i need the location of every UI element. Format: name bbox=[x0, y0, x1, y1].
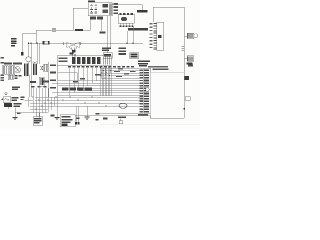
pair blobs bbox=[75, 122, 79, 124]
VSV1 hatch bbox=[188, 34, 192, 39]
filter box bottom bbox=[60, 115, 75, 127]
ECU connector box bbox=[144, 68, 151, 113]
left edge labels bbox=[0, 57, 4, 81]
bus junction bbox=[183, 108, 185, 110]
wire pair down bbox=[76, 106, 78, 122]
label 4A bbox=[100, 31, 106, 33]
label row to right bbox=[153, 69, 169, 71]
distributor rotor bbox=[67, 42, 80, 48]
wire filter out bbox=[25, 97, 34, 107]
tiny marks mid bbox=[15, 75, 22, 79]
pair 2 circles bbox=[33, 62, 37, 64]
joint box text bbox=[34, 118, 42, 124]
sub stripbox bbox=[8, 75, 13, 80]
bottom mid wires bbox=[57, 106, 184, 118]
lower feed wires bbox=[15, 97, 143, 113]
ecu feed wires mid bbox=[52, 81, 143, 96]
distributor pins bbox=[73, 54, 76, 57]
bundle junction dots bbox=[100, 68, 112, 79]
resistor label bbox=[104, 54, 111, 57]
cluster caption bbox=[12, 86, 20, 90]
ECU pin rows bbox=[144, 69, 149, 112]
relay pin labels bbox=[114, 3, 119, 14]
left label column bbox=[50, 65, 56, 89]
filter box rows bbox=[62, 116, 73, 123]
wire lamp drop bbox=[29, 43, 58, 106]
box cold start bbox=[130, 53, 139, 59]
connector left text bbox=[59, 58, 68, 63]
igniter box bbox=[118, 14, 134, 23]
ignition label text bbox=[14, 103, 22, 107]
ECU bottom caption bbox=[138, 114, 148, 116]
bus tick left bbox=[62, 42, 65, 45]
label TO DIST bbox=[137, 10, 148, 12]
ECU outline loop bbox=[151, 73, 185, 119]
wire bbox=[22, 8, 91, 52]
ground label bbox=[17, 113, 21, 115]
left cluster top bar bbox=[4, 63, 22, 65]
solenoid VSV1 bbox=[184, 33, 198, 39]
pin number row bbox=[68, 66, 134, 68]
labels B-Y column bbox=[119, 48, 127, 55]
ground left bbox=[8, 107, 15, 118]
label row top far bbox=[148, 66, 168, 68]
resistor on bus bbox=[185, 97, 190, 101]
sub stripbox stripes bbox=[9, 75, 12, 79]
fusible link blob bbox=[21, 52, 24, 55]
bus ticks bbox=[182, 47, 185, 51]
relay coil block bbox=[103, 4, 109, 13]
distributor cap blob bbox=[72, 50, 76, 53]
sensor stripbox 2 bbox=[9, 66, 15, 75]
check connector ladder bbox=[157, 22, 164, 50]
center connector box bbox=[57, 56, 111, 66]
fuse EFI bbox=[43, 41, 49, 44]
condenser bars bbox=[40, 78, 43, 85]
E1 label bbox=[51, 115, 55, 117]
filter labels bbox=[12, 97, 25, 101]
sensor stripbox 1 bbox=[2, 66, 8, 75]
igniter legs bbox=[121, 23, 133, 26]
capacitor pair 1 bbox=[24, 64, 28, 77]
VSV2 label bbox=[187, 63, 194, 67]
relay contacts bbox=[90, 4, 97, 13]
igniter marks bbox=[41, 66, 44, 70]
igniter terminals bbox=[119, 13, 133, 15]
connector bars bbox=[72, 57, 100, 64]
ECU circled pin bbox=[146, 88, 150, 92]
distributor fan bbox=[69, 47, 77, 50]
bus tick right bbox=[79, 42, 82, 45]
fusible link F/L bbox=[52, 29, 56, 31]
noise filter box bbox=[4, 96, 11, 103]
connector right stripes bbox=[103, 57, 109, 65]
solenoid VSV2 bbox=[184, 56, 194, 62]
ecu feed wires top bbox=[100, 68, 143, 78]
ladder pin labels bbox=[150, 23, 153, 48]
capacitor pair 2 bbox=[33, 64, 37, 75]
wire relay drop bbox=[91, 16, 111, 53]
junction dots bus bbox=[28, 43, 134, 44]
ground mid hatch bbox=[85, 117, 90, 119]
ECU left labels bbox=[140, 69, 143, 112]
scan bottom line bbox=[100, 124, 200, 126]
stripbox2 stripes bbox=[10, 66, 13, 74]
oxygen sensor oval bbox=[119, 103, 127, 108]
condenser box bbox=[39, 77, 44, 86]
grid labels bbox=[30, 81, 49, 88]
joint box bottom left bbox=[33, 117, 43, 126]
relay caption bar bbox=[90, 17, 103, 20]
small box right bbox=[44, 64, 48, 72]
E2 label bbox=[103, 118, 108, 120]
igniter internals bbox=[121, 17, 127, 21]
E2 marks bbox=[96, 113, 100, 121]
joint box top ticks bbox=[37, 113, 40, 117]
fuse ends bbox=[43, 41, 50, 44]
junction dots grid bbox=[32, 96, 106, 109]
W label bbox=[77, 118, 80, 120]
noise filter icon bbox=[5, 98, 9, 100]
wire to right bus bbox=[153, 7, 184, 25]
cold start label bbox=[131, 54, 138, 58]
arrow left bbox=[1, 98, 3, 100]
harness bundle verticals bbox=[101, 67, 112, 97]
VSV2 hatch bbox=[188, 56, 192, 61]
wire staircase bbox=[58, 73, 77, 81]
relay connector stripe bbox=[109, 4, 112, 16]
wire igniter to bus bbox=[127, 27, 133, 43]
small circle above bbox=[5, 93, 7, 95]
label FB bbox=[188, 64, 193, 66]
ground bus bar bbox=[62, 88, 92, 91]
label 23 bbox=[70, 52, 74, 54]
bottom comp bbox=[119, 119, 123, 124]
igniter caption bbox=[128, 28, 148, 30]
ground E1 bbox=[55, 118, 60, 120]
mid small labels bbox=[73, 68, 136, 82]
main relay label bbox=[88, 0, 95, 2]
resistor box bbox=[103, 53, 112, 59]
small box stripes bbox=[45, 65, 47, 72]
main bus wire bbox=[28, 34, 143, 44]
bottom comp label bbox=[118, 117, 126, 119]
ignition label box bbox=[4, 103, 12, 107]
igniter feet bbox=[120, 26, 134, 28]
label to circuit opening relay bbox=[102, 48, 111, 52]
motor circle bbox=[15, 67, 21, 73]
wire to igniter bbox=[112, 5, 142, 11]
label hot at all times bbox=[11, 38, 17, 46]
ECU top caption bbox=[138, 60, 150, 66]
ladder label B bbox=[158, 35, 161, 38]
stripbox1 stripes bbox=[3, 66, 6, 74]
lamp bbox=[26, 57, 31, 64]
grid verticals bbox=[33, 88, 54, 118]
filter box dark bbox=[62, 124, 68, 127]
ground mid bbox=[86, 106, 88, 117]
pin drop wires bbox=[70, 68, 111, 95]
ground hatch bbox=[13, 118, 18, 120]
label AM2 bbox=[75, 29, 83, 31]
ladder pins bbox=[154, 24, 157, 50]
diode on bus bbox=[185, 76, 190, 80]
right bus wire bbox=[183, 25, 185, 118]
main relay box bbox=[88, 3, 112, 16]
